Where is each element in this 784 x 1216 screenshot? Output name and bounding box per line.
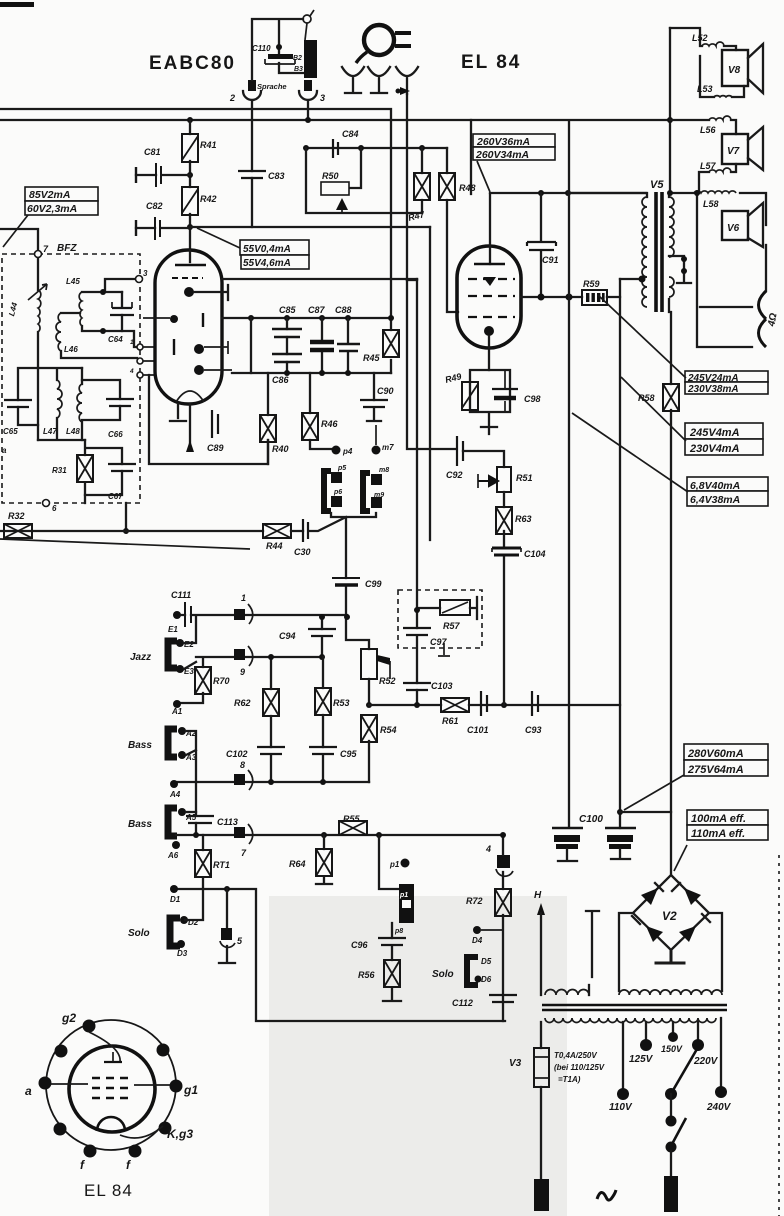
svg-text:8: 8 [240, 760, 245, 770]
svg-text:Jazz: Jazz [130, 652, 151, 663]
svg-text:R52: R52 [379, 676, 396, 686]
svg-text:R63: R63 [515, 514, 532, 524]
svg-text:D1: D1 [170, 895, 181, 904]
svg-text:1: 1 [241, 593, 246, 603]
svg-text:C104: C104 [524, 549, 546, 559]
svg-text:V3: V3 [509, 1058, 522, 1069]
svg-text:R41: R41 [200, 140, 217, 150]
svg-text:R57: R57 [443, 621, 461, 631]
svg-text:V6: V6 [727, 223, 740, 234]
svg-text:C84: C84 [342, 129, 359, 139]
svg-text:R54: R54 [380, 725, 397, 735]
svg-text:C82: C82 [146, 201, 163, 211]
svg-text:C65: C65 [3, 427, 18, 436]
svg-text:3: 3 [320, 93, 325, 103]
svg-text:Solo: Solo [432, 969, 454, 980]
svg-text:C88: C88 [335, 305, 352, 315]
svg-text:L48: L48 [66, 427, 80, 436]
svg-text:C100: C100 [579, 814, 603, 825]
svg-text:280V60mA: 280V60mA [687, 748, 744, 760]
svg-text:C101: C101 [467, 725, 489, 735]
svg-text:R53: R53 [333, 698, 350, 708]
svg-text:V5: V5 [650, 179, 664, 191]
svg-text:C81: C81 [144, 147, 161, 157]
svg-text:EL 84: EL 84 [84, 1181, 133, 1200]
svg-text:B2: B2 [293, 55, 302, 62]
svg-text:m8: m8 [379, 467, 389, 474]
svg-text:L56: L56 [700, 125, 717, 135]
svg-text:R45: R45 [363, 353, 381, 363]
svg-text:a: a [2, 446, 7, 455]
svg-text:C97: C97 [430, 637, 448, 647]
svg-text:V7: V7 [727, 146, 740, 157]
svg-text:C112: C112 [452, 998, 473, 1008]
svg-text:R32: R32 [8, 511, 25, 521]
svg-text:260V34mA: 260V34mA [475, 149, 529, 161]
svg-text:p8: p8 [394, 928, 403, 935]
svg-text:110mA eff.: 110mA eff. [691, 828, 745, 840]
svg-text:C111: C111 [171, 590, 191, 600]
svg-text:3: 3 [143, 269, 148, 278]
svg-text:R62: R62 [234, 698, 251, 708]
svg-text:230V4mA: 230V4mA [689, 443, 740, 455]
svg-text:245V24mA: 245V24mA [687, 373, 739, 384]
svg-text:85V2mA: 85V2mA [29, 189, 70, 201]
svg-text:9: 9 [240, 667, 245, 677]
svg-text:4: 4 [129, 368, 134, 375]
svg-text:L45: L45 [66, 277, 80, 286]
svg-text:C66: C66 [108, 430, 123, 439]
svg-text:C87: C87 [308, 305, 326, 315]
svg-text:C85: C85 [279, 305, 297, 315]
svg-text:L46: L46 [64, 345, 78, 354]
svg-text:A4: A4 [169, 790, 181, 799]
svg-text:g1: g1 [183, 1083, 198, 1097]
svg-text:60V2,3mA: 60V2,3mA [27, 203, 77, 215]
svg-text:C98: C98 [524, 394, 541, 404]
svg-text:V2: V2 [662, 909, 677, 923]
svg-text:C94: C94 [279, 631, 296, 641]
svg-text:D3: D3 [177, 949, 188, 958]
svg-text:C113: C113 [217, 817, 238, 827]
svg-text:C91: C91 [542, 255, 559, 265]
svg-text:R31: R31 [52, 466, 67, 475]
svg-text:Solo: Solo [128, 928, 150, 939]
svg-text:m9: m9 [374, 492, 384, 499]
svg-text:Sprache: Sprache [257, 82, 287, 91]
svg-text:6: 6 [52, 504, 57, 513]
svg-text:H: H [534, 890, 542, 901]
svg-text:D6: D6 [481, 975, 492, 984]
svg-text:p1: p1 [389, 860, 400, 869]
svg-text:T0,4A/250V: T0,4A/250V [554, 1051, 597, 1060]
svg-text:R61: R61 [442, 716, 459, 726]
svg-text:RT1: RT1 [213, 860, 230, 870]
svg-text:A6: A6 [167, 851, 179, 860]
svg-text:g2: g2 [61, 1011, 76, 1025]
svg-text:(bei 110/125V: (bei 110/125V [554, 1063, 605, 1072]
svg-text:C93: C93 [525, 725, 542, 735]
svg-text:p4: p4 [342, 447, 353, 456]
svg-text:C64: C64 [108, 335, 123, 344]
svg-text:2: 2 [229, 93, 235, 103]
svg-text:R50: R50 [322, 171, 339, 181]
svg-text:240V: 240V [706, 1102, 732, 1113]
svg-text:125V: 125V [629, 1054, 654, 1065]
svg-text:L52: L52 [692, 33, 708, 43]
svg-text:R42: R42 [200, 194, 217, 204]
svg-text:C110: C110 [252, 44, 271, 53]
svg-text:E1: E1 [168, 625, 178, 634]
svg-text:6,8V40mA: 6,8V40mA [690, 480, 740, 492]
svg-text:Bass: Bass [128, 740, 152, 751]
svg-text:110V: 110V [609, 1102, 633, 1113]
svg-text:m7: m7 [382, 443, 394, 452]
svg-text:C89: C89 [207, 443, 224, 453]
svg-text:K,g3: K,g3 [167, 1127, 193, 1141]
svg-text:=T1A): =T1A) [558, 1075, 581, 1084]
svg-text:C30: C30 [294, 547, 311, 557]
svg-text:C92: C92 [446, 470, 463, 480]
svg-text:R55: R55 [343, 814, 361, 824]
svg-text:E2: E2 [184, 640, 194, 649]
svg-text:C86: C86 [272, 375, 290, 385]
svg-text:55V0,4mA: 55V0,4mA [243, 244, 291, 255]
svg-text:R46: R46 [321, 419, 339, 429]
svg-text:R64: R64 [289, 859, 306, 869]
svg-text:V8: V8 [728, 65, 741, 76]
svg-text:C103: C103 [431, 681, 453, 691]
svg-text:230V38mA: 230V38mA [687, 384, 739, 395]
svg-text:BFZ: BFZ [57, 243, 77, 254]
svg-text:D5: D5 [481, 957, 492, 966]
svg-text:D4: D4 [472, 936, 483, 945]
svg-text:220V: 220V [693, 1056, 719, 1067]
svg-text:L47: L47 [43, 427, 57, 436]
svg-text:100mA eff.: 100mA eff. [691, 813, 746, 825]
svg-text:R56: R56 [358, 970, 376, 980]
svg-text:L53: L53 [697, 84, 713, 94]
svg-text:R40: R40 [272, 444, 289, 454]
svg-text:R70: R70 [213, 676, 230, 686]
svg-text:Bass: Bass [128, 819, 152, 830]
svg-text:C96: C96 [351, 940, 369, 950]
svg-text:6,4V38mA: 6,4V38mA [690, 494, 740, 506]
svg-text:C102: C102 [226, 749, 248, 759]
svg-text:L58: L58 [703, 199, 719, 209]
svg-text:R44: R44 [266, 541, 283, 551]
svg-text:p1: p1 [399, 892, 408, 899]
svg-text:260V36mA: 260V36mA [476, 136, 530, 148]
svg-text:55V4,6mA: 55V4,6mA [243, 258, 291, 269]
svg-text:150V: 150V [661, 1044, 683, 1054]
svg-text:p6: p6 [333, 489, 342, 496]
svg-text:245V4mA: 245V4mA [689, 427, 740, 439]
svg-text:R72: R72 [466, 896, 483, 906]
svg-text:C99: C99 [365, 579, 382, 589]
svg-text:R59: R59 [583, 279, 600, 289]
svg-text:R51: R51 [516, 473, 533, 483]
svg-text:EABC80: EABC80 [149, 53, 236, 74]
svg-text:C67: C67 [108, 492, 123, 501]
svg-text:4: 4 [485, 844, 491, 854]
svg-text:C83: C83 [268, 171, 285, 181]
svg-text:A1: A1 [171, 707, 183, 716]
svg-text:a: a [25, 1084, 32, 1098]
svg-text:275V64mA: 275V64mA [687, 764, 744, 776]
svg-text:B3: B3 [294, 66, 303, 73]
svg-text:C90: C90 [377, 386, 394, 396]
svg-text:p5: p5 [337, 465, 346, 472]
svg-text:L57: L57 [700, 161, 717, 171]
svg-text:C95: C95 [340, 749, 358, 759]
svg-text:R48: R48 [459, 183, 476, 193]
svg-text:EL 84: EL 84 [461, 52, 521, 73]
svg-text:1: 1 [130, 339, 134, 346]
